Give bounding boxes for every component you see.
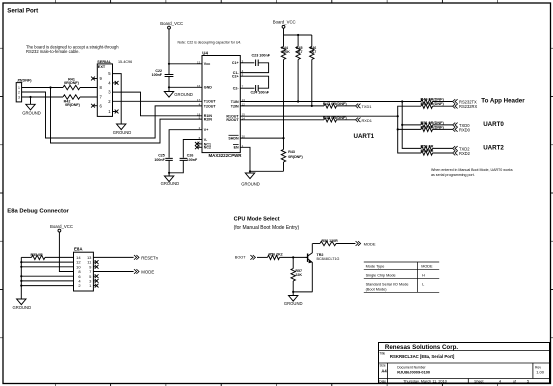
svg-text:R52 0R(DNF): R52 0R(DNF) bbox=[421, 125, 445, 129]
wire Vcc junction to C22 bbox=[168, 64, 170, 74]
wire C2+ loop bbox=[240, 76, 268, 88]
wire collector to R58 bbox=[313, 243, 321, 245]
junction E8A bus y281 bbox=[20, 280, 22, 282]
svg-text:C2+: C2+ bbox=[232, 75, 239, 79]
svg-text:100K: 100K bbox=[281, 50, 290, 54]
resistor R52 bbox=[421, 127, 433, 131]
svg-text:GROUND: GROUND bbox=[113, 130, 132, 135]
wire R41 to DB9 pin8 bbox=[80, 87, 97, 89]
junction T1IN TX-bus bbox=[401, 100, 403, 102]
DB9 pin 4 stub no-connect bbox=[113, 82, 117, 84]
node RESETn bbox=[134, 255, 139, 260]
svg-text:Renesas Solutions Corp.: Renesas Solutions Corp. bbox=[385, 344, 459, 351]
svg-text:4K7: 4K7 bbox=[310, 50, 317, 54]
svg-text:GROUND: GROUND bbox=[284, 301, 303, 306]
capacitor C24 bbox=[256, 85, 259, 92]
wire net T2IN to TXD1 bbox=[240, 105, 324, 107]
DB9 pin 1 stub no-connect bbox=[113, 111, 117, 113]
wire E8A bus to pin row y276 bbox=[21, 275, 73, 277]
svg-text:100nF: 100nF bbox=[154, 158, 165, 162]
svg-text:E8a Debug Connector: E8a Debug Connector bbox=[7, 209, 69, 215]
wire DB9 pin2 to T1OUT bbox=[113, 100, 203, 102]
wire R57 to ground bbox=[292, 281, 294, 296]
svg-text:22K: 22K bbox=[295, 273, 302, 277]
svg-text:C2-: C2- bbox=[233, 87, 240, 91]
svg-text:UART0: UART0 bbox=[483, 121, 504, 128]
junction E8A bus y262 bbox=[20, 261, 22, 263]
connector SERIAL EXT (DB9) body bbox=[97, 64, 112, 117]
wire R58 to MODE bbox=[336, 243, 355, 245]
wire C26 to ground junction bbox=[169, 161, 183, 173]
resistor R58 120R bbox=[320, 241, 336, 245]
wire R46 to T2IN row bbox=[311, 60, 313, 106]
resistor R44 100K bbox=[283, 35, 285, 47]
wire RX bus vertical bbox=[398, 106, 421, 153]
svg-text:Mode Type: Mode Type bbox=[366, 265, 385, 269]
title block frame bbox=[379, 343, 550, 384]
junction J5 pin3 ground bbox=[29, 96, 31, 98]
svg-text:0R(DNF): 0R(DNF) bbox=[288, 155, 303, 159]
svg-text:V+: V+ bbox=[204, 128, 209, 132]
U4 EN overline bbox=[233, 144, 239, 146]
svg-text:R56 2K2: R56 2K2 bbox=[269, 252, 283, 256]
wire R52 to RXD0 bbox=[433, 128, 453, 130]
svg-text:3: 3 bbox=[18, 95, 20, 99]
wire R55 to E8A pin14 bbox=[45, 256, 74, 258]
wire net R2IN long route bbox=[51, 88, 203, 144]
svg-text:R49 0R(DNF): R49 0R(DNF) bbox=[421, 97, 445, 101]
junction rail R45 bbox=[297, 34, 299, 36]
resistor R50 bbox=[421, 104, 433, 108]
wire E8A bus to pin row y267 bbox=[21, 266, 73, 268]
wire R44 to SHDN row bbox=[283, 60, 285, 139]
junction E8A bus y286 bbox=[20, 285, 22, 287]
svg-text:J5(DNF): J5(DNF) bbox=[17, 79, 32, 83]
svg-text:RJU86J0009-0100: RJU86J0009-0100 bbox=[397, 369, 430, 374]
connector J5(DNF) body bbox=[16, 83, 21, 102]
svg-text:4K7: 4K7 bbox=[296, 50, 303, 54]
E8A pin 5 stub no-connect bbox=[93, 275, 95, 277]
svg-text:4: 4 bbox=[499, 380, 501, 384]
node TXD0 bbox=[453, 123, 458, 128]
ground symbol E8A bbox=[17, 299, 26, 305]
svg-text:Size: Size bbox=[380, 363, 386, 367]
junction RX bus RXD0 bbox=[397, 128, 399, 130]
svg-text:RS232RX: RS232RX bbox=[459, 104, 477, 109]
svg-text:RXD0: RXD0 bbox=[459, 127, 471, 132]
svg-text:RXD1: RXD1 bbox=[362, 118, 372, 123]
wire net R2OUT to RXD1 bbox=[240, 119, 324, 121]
svg-text:H: H bbox=[422, 274, 425, 278]
ground symbol TR2 bbox=[289, 296, 298, 302]
DB9 pin 6 stub no-connect bbox=[94, 105, 98, 107]
resistor R49 bbox=[421, 99, 433, 103]
wire R51 to TXD0 bbox=[433, 124, 453, 126]
ground symbol J5 bbox=[30, 97, 32, 104]
svg-text:E8A: E8A bbox=[74, 247, 83, 252]
svg-text:R54 0R: R54 0R bbox=[421, 149, 434, 153]
svg-text:Title: Title bbox=[379, 351, 385, 355]
U4 NC2 pin stub and no-connect X bbox=[197, 146, 202, 148]
junction TX bus TXD0 bbox=[401, 124, 403, 126]
ground symbol C25/C26 bbox=[168, 173, 170, 176]
resistor R47 0R(DNF) bbox=[324, 104, 336, 108]
E8A pin 3 stub no-connect bbox=[93, 280, 95, 282]
wire net V- to C26 bbox=[183, 140, 202, 158]
junction GND/C22/ground bbox=[168, 86, 170, 88]
wire J5 pin2 to T2OUT net bbox=[22, 92, 202, 138]
svg-text:SERIAL: SERIAL bbox=[97, 60, 112, 64]
wire E8A ground bus bbox=[20, 257, 22, 299]
svg-text:1.00: 1.00 bbox=[536, 369, 545, 374]
svg-text:(for Manual Boot Mode Entry): (for Manual Boot Mode Entry) bbox=[234, 225, 300, 231]
resistor R56 2K2 bbox=[268, 255, 280, 259]
svg-text:1: 1 bbox=[18, 86, 20, 90]
capacitor C23 bbox=[256, 60, 259, 67]
svg-text:Vcc: Vcc bbox=[204, 62, 210, 66]
junction emitter/R57 bbox=[292, 291, 294, 293]
op-amp U1 equivalent: RS232 transceiver U4 MAX3222CPWR body bbox=[202, 56, 240, 153]
capacitor C25 bbox=[165, 158, 173, 160]
wire E8A pin7 to MODE bbox=[93, 271, 133, 273]
svg-text:15-4C96: 15-4C96 bbox=[118, 60, 132, 64]
svg-text:15: 15 bbox=[197, 60, 201, 64]
svg-text:2: 2 bbox=[18, 90, 20, 94]
junction base/R57 bbox=[292, 256, 294, 258]
wire C1+ loop bbox=[240, 62, 254, 64]
svg-text:R2IN: R2IN bbox=[204, 118, 213, 122]
svg-text:TXD1: TXD1 bbox=[362, 104, 372, 109]
node RXD0 bbox=[453, 127, 458, 132]
svg-text:GROUND: GROUND bbox=[174, 92, 193, 97]
junction R46/T2IN bbox=[311, 105, 313, 107]
svg-text:100nF: 100nF bbox=[187, 158, 198, 162]
resistor R45 4K7 bbox=[297, 35, 299, 47]
svg-text:R58 120R: R58 120R bbox=[322, 239, 339, 243]
wire R50 to RS232RX bbox=[433, 105, 453, 107]
svg-text:GROUND: GROUND bbox=[12, 305, 31, 310]
resistor R57 22K bbox=[292, 257, 294, 268]
ground symbol EN/R43 bbox=[249, 171, 251, 173]
svg-text:Board_VCC: Board_VCC bbox=[50, 224, 73, 229]
svg-text:BC848CLT1G: BC848CLT1G bbox=[317, 257, 340, 261]
wire VCC rail bbox=[283, 28, 285, 35]
wire R47 to TXD1 tap bbox=[337, 105, 356, 107]
svg-text:MODE: MODE bbox=[364, 241, 376, 246]
wire E8A bus to pin row y281 bbox=[21, 280, 73, 282]
node RXD1 bbox=[356, 118, 361, 123]
svg-text:T2IN: T2IN bbox=[231, 104, 239, 108]
svg-text:0R(DNF): 0R(DNF) bbox=[65, 103, 81, 107]
svg-text:RS232 male-to-female cable.: RS232 male-to-female cable. bbox=[26, 49, 80, 54]
svg-text:C23 100nF: C23 100nF bbox=[252, 54, 271, 58]
wire R48 to RXD1 tap bbox=[337, 119, 356, 121]
capacitor C26 bbox=[180, 158, 188, 160]
ground symbol DB9 pin5 bbox=[117, 124, 126, 130]
svg-text:R2OUT: R2OUT bbox=[226, 118, 239, 122]
svg-text:RSKR8CL3AC [E8a, Serial Port]: RSKR8CL3AC [E8a, Serial Port] bbox=[390, 354, 455, 359]
svg-text:L: L bbox=[422, 283, 424, 287]
U4 SHDN overline bbox=[229, 134, 239, 136]
wire E8A bus to pin row y286 bbox=[21, 285, 73, 287]
junction C25/C26 ground bbox=[168, 172, 170, 174]
wire net R1OUT row bbox=[240, 115, 397, 117]
wire net SHDN bbox=[240, 137, 283, 139]
node RXD2 bbox=[453, 151, 458, 156]
wire TX bus vertical bbox=[402, 102, 421, 149]
junction E8A bus y276 bbox=[20, 275, 22, 277]
wire C23 to C1- bbox=[240, 63, 268, 73]
svg-text:Board_VCC: Board_VCC bbox=[160, 21, 183, 26]
wire Board_VCC to U4 Vcc pin bbox=[168, 29, 170, 64]
resistor R42 0R(DNF) bbox=[63, 95, 80, 99]
svg-text:Standard Serial I/O Mode: Standard Serial I/O Mode bbox=[366, 283, 409, 287]
mode table bbox=[364, 261, 439, 263]
svg-text:R55 0R: R55 0R bbox=[31, 253, 44, 257]
resistor R43 0R(DNF) bbox=[283, 138, 285, 149]
svg-text:EXT: EXT bbox=[98, 65, 106, 69]
svg-text:R50 0R(DNF): R50 0R(DNF) bbox=[421, 102, 445, 106]
wire E8A bus to pin row y262 bbox=[21, 261, 73, 263]
wire R49 to RS232TX bbox=[433, 101, 453, 103]
resistor R54 bbox=[421, 151, 433, 155]
node MODE (E8a) bbox=[134, 269, 139, 274]
wire DB9 pin3 to R1IN bbox=[113, 92, 203, 116]
wire J5 pin1 to R41 and R2IN net bbox=[22, 87, 63, 89]
svg-text:MODE: MODE bbox=[141, 270, 154, 275]
svg-text:as serial programming port.: as serial programming port. bbox=[431, 173, 475, 177]
svg-text:U4: U4 bbox=[202, 50, 208, 55]
wire BOOT to R56 bbox=[257, 256, 268, 258]
svg-text:100nF: 100nF bbox=[152, 73, 163, 77]
wire R45 to T1IN row bbox=[297, 60, 299, 102]
svg-text:R51 0R(DNF): R51 0R(DNF) bbox=[421, 121, 445, 125]
E8A pin 1 stub no-connect bbox=[93, 285, 95, 287]
junction R45/T1IN bbox=[297, 100, 299, 102]
svg-text:EN: EN bbox=[234, 146, 239, 150]
resistor R53 bbox=[421, 146, 433, 150]
wire R42 to DB9 pin7 bbox=[80, 96, 97, 98]
wire ground rail EN/R43 bbox=[250, 170, 284, 172]
transistor TR2 BC848CLT1G bbox=[307, 254, 309, 262]
wire C22 to GND pin bbox=[168, 77, 170, 87]
DB9 pin 9 stub no-connect bbox=[94, 78, 98, 80]
svg-text:Thursday, March 11, 2010: Thursday, March 11, 2010 bbox=[403, 380, 447, 384]
svg-text:When entered in Manual Boot Mo: When entered in Manual Boot Mode, UART0 … bbox=[431, 168, 513, 172]
svg-text:Date: Date bbox=[379, 379, 386, 383]
svg-text:RXD2: RXD2 bbox=[459, 151, 471, 156]
svg-text:R57: R57 bbox=[295, 269, 302, 273]
svg-text:C24 100nF: C24 100nF bbox=[251, 90, 270, 94]
svg-text:T2OUT: T2OUT bbox=[204, 104, 217, 108]
svg-text:NC2: NC2 bbox=[204, 146, 211, 150]
wire DB9 pin5 to ground bbox=[113, 74, 122, 124]
svg-text:A4: A4 bbox=[381, 369, 387, 374]
svg-text:R43: R43 bbox=[288, 150, 295, 154]
svg-text:Single Chip Mode: Single Chip Mode bbox=[366, 274, 396, 278]
E8A pin 9 stub no-connect bbox=[93, 266, 95, 268]
svg-text:0R(DNF): 0R(DNF) bbox=[64, 81, 80, 85]
svg-text:C1+: C1+ bbox=[232, 61, 239, 65]
svg-text:Serial Port: Serial Port bbox=[7, 7, 38, 14]
E8A pin 11 stub no-connect bbox=[93, 261, 95, 263]
wire J5 pin3 to ground and R42 bbox=[22, 96, 63, 98]
capacitor C22 bbox=[165, 75, 174, 77]
svg-text:SHDN: SHDN bbox=[228, 137, 239, 141]
connector E8A body bbox=[74, 252, 94, 291]
svg-text:Note: C22 is decoupling capaci: Note: C22 is decoupling capacitor for U4… bbox=[178, 40, 242, 44]
wire R53 to TXD2 bbox=[433, 147, 453, 149]
wire net EN to ground bbox=[240, 147, 250, 171]
resistor R51 bbox=[421, 123, 433, 127]
svg-text:GROUND: GROUND bbox=[241, 181, 260, 186]
svg-text:To App Header: To App Header bbox=[481, 98, 525, 105]
svg-text:T1OUT: T1OUT bbox=[204, 100, 217, 104]
junction EN ground bbox=[249, 170, 251, 172]
svg-text:RESETn: RESETn bbox=[141, 255, 158, 260]
junction J5 pin1 bbox=[49, 86, 51, 88]
svg-text:Board_VCC: Board_VCC bbox=[273, 20, 296, 25]
svg-text:of: of bbox=[513, 380, 516, 384]
svg-text:CPU Mode Select: CPU Mode Select bbox=[234, 216, 280, 222]
U4 NC1 pin stub and no-connect X bbox=[197, 143, 202, 145]
node MODE (CPU) bbox=[356, 241, 361, 246]
junction E8A bus y267 bbox=[20, 266, 22, 268]
node TXD1 bbox=[356, 104, 361, 109]
svg-text:Sheet: Sheet bbox=[474, 380, 483, 384]
wire R56 to base of TR2 bbox=[280, 256, 308, 258]
svg-text:T1IN: T1IN bbox=[231, 100, 239, 104]
svg-text:MAX3222CPWR: MAX3222CPWR bbox=[209, 153, 243, 158]
resistor R48 0R(DNF) bbox=[324, 118, 336, 122]
svg-text:5: 5 bbox=[527, 380, 529, 384]
junction SHDN/R44/R43 bbox=[282, 137, 284, 139]
svg-text:GROUND: GROUND bbox=[22, 111, 41, 116]
svg-text:GROUND: GROUND bbox=[161, 181, 180, 186]
svg-text:GND: GND bbox=[204, 86, 212, 90]
wire E8A pin13 to RESETn bbox=[93, 256, 133, 258]
resistor R46 4K7 bbox=[311, 35, 313, 47]
junction R1OUT RX-bus bbox=[397, 115, 399, 117]
svg-text:UART1: UART1 bbox=[354, 133, 375, 140]
wire C25 to ground junction bbox=[168, 161, 170, 173]
wire emitter to ground rail bbox=[293, 291, 312, 293]
wire C24 to C2- bbox=[240, 87, 254, 89]
svg-text:R53 0R: R53 0R bbox=[421, 144, 434, 148]
wire RX bus to RXD0 row bbox=[398, 128, 421, 130]
svg-text:BOOT: BOOT bbox=[235, 256, 246, 260]
svg-text:MODE: MODE bbox=[421, 265, 433, 269]
wire TX bus to TXD0 row bbox=[402, 124, 421, 126]
ground symbol below C22 bbox=[168, 87, 170, 91]
svg-text:(Boot Mode): (Boot Mode) bbox=[366, 287, 388, 291]
svg-text:16: 16 bbox=[197, 84, 201, 88]
wire Board_VCC to E8A pin8 bbox=[59, 232, 73, 272]
wire net T1IN / RS232TX row bbox=[240, 101, 421, 103]
node TXD2 bbox=[453, 146, 458, 151]
wire R54 to RXD2 bbox=[433, 152, 453, 154]
svg-text:UART2: UART2 bbox=[483, 145, 504, 152]
wire net V+ to C25 bbox=[169, 130, 202, 158]
resistor R55 0R on pin14 bbox=[21, 256, 31, 258]
node RS232TX bbox=[453, 99, 458, 104]
junction Vcc/C22 bbox=[168, 63, 170, 65]
node RS232RX bbox=[453, 104, 458, 109]
resistor R41 0R(DNF) bbox=[63, 85, 80, 89]
